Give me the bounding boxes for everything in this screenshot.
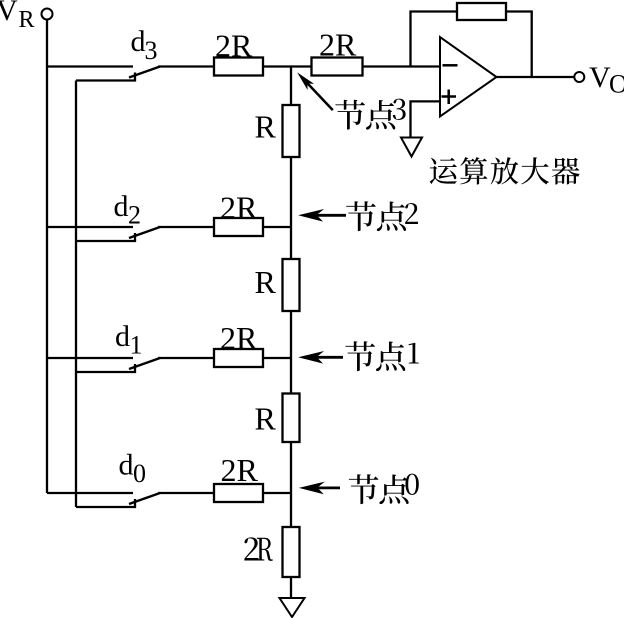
svg-text:2R: 2R	[221, 452, 259, 488]
ground opamp	[401, 138, 422, 157]
label node3	[335, 99, 405, 130]
wire d3 to resistor	[158, 65, 214, 67]
wire 2R to ground	[290, 577, 292, 599]
wire d3 lower contact elbow	[76, 73, 135, 81]
svg-text:d: d	[115, 320, 130, 353]
svg-text:2R: 2R	[220, 320, 258, 356]
switch d1 blade	[129, 358, 160, 369]
node 1 arrow	[298, 351, 343, 364]
resistor R3	[283, 394, 300, 443]
label VR	[0, 0, 35, 33]
wire d2 to resistor	[158, 226, 214, 228]
op-amp U1	[440, 37, 497, 117]
label node2	[346, 201, 418, 231]
wire VR rail	[46, 20, 48, 493]
svg-text:R: R	[255, 401, 277, 437]
wire d0 upper contact	[47, 492, 133, 494]
wire R1 to node2	[290, 157, 292, 227]
wire d0 to resistor	[158, 492, 214, 494]
op-amp plus pin mark	[442, 90, 457, 105]
svg-text:3: 3	[145, 36, 158, 65]
wire feedback up	[411, 12, 458, 67]
label d3	[131, 25, 158, 65]
wire R3 to node0	[290, 442, 292, 493]
wire d1 resistor to ladder	[263, 357, 292, 359]
wire switch bus	[75, 81, 77, 508]
label d1	[115, 320, 143, 360]
svg-text:2R: 2R	[319, 27, 357, 63]
wire opamp output	[497, 76, 575, 78]
svg-text:R: R	[255, 264, 277, 300]
switch d2 blade	[129, 227, 160, 238]
resistor 2R terminator	[283, 527, 300, 577]
label node0	[349, 474, 419, 505]
svg-text:d: d	[119, 449, 134, 482]
resistor R2	[283, 259, 300, 311]
resistor 2R opamp input	[312, 58, 363, 76]
label VO	[589, 61, 624, 99]
svg-text:d: d	[131, 25, 146, 58]
wire d3 resistor to ladder	[263, 65, 292, 67]
label d2	[114, 190, 142, 230]
wire d2 lower contact elbow	[76, 233, 135, 241]
wire opamp plus to ground	[411, 101, 441, 137]
svg-text:2R: 2R	[220, 190, 258, 226]
terminal VR	[42, 9, 53, 20]
op-amp minus pin mark	[443, 64, 458, 67]
wire node3 to 2R input	[291, 65, 312, 67]
svg-text:0: 0	[133, 459, 146, 488]
resistor 2R row d3	[214, 58, 263, 76]
switch d0 blade	[129, 493, 160, 504]
wire node0 to 2R term	[290, 493, 292, 527]
wire d1 to resistor	[158, 357, 214, 359]
resistor 2R row d1	[214, 349, 263, 367]
wire node2 to R2	[290, 227, 292, 259]
resistor 2R row d2	[214, 218, 263, 236]
node 0 arrow	[299, 482, 340, 495]
svg-text:2: 2	[128, 201, 141, 230]
terminal VO	[574, 72, 584, 82]
label node1	[345, 341, 418, 371]
svg-text:R: R	[19, 7, 35, 33]
svg-text:V: V	[589, 61, 611, 94]
resistor 2R row d0	[214, 484, 263, 502]
svg-text:1: 1	[130, 331, 143, 360]
wire d2 resistor to ladder	[263, 226, 292, 228]
svg-text:d: d	[114, 190, 129, 223]
node 2 arrow	[298, 209, 346, 222]
svg-text:O: O	[609, 70, 624, 99]
wire feedback down	[506, 12, 532, 78]
resistor R1	[283, 105, 300, 157]
label 2R terminator	[244, 537, 272, 560]
wire d0 resistor to ladder	[263, 492, 292, 494]
wire d1 lower contact elbow	[76, 364, 135, 372]
switch d3 blade	[129, 67, 160, 78]
wire d0 lower contact elbow	[76, 499, 135, 507]
wire d2 upper contact	[47, 226, 133, 228]
svg-text:V: V	[0, 0, 18, 27]
node 3 arrow	[297, 72, 333, 110]
wire node3 to R1	[290, 67, 292, 106]
wire 2R to opamp minus	[363, 65, 441, 67]
wire node1 to R3	[290, 358, 292, 394]
wire d3 upper contact	[47, 65, 133, 67]
svg-text:2R: 2R	[215, 28, 253, 64]
label d0	[119, 449, 147, 489]
ground bottom	[280, 598, 305, 617]
resistor feedback	[457, 3, 506, 20]
label opamp name	[430, 157, 580, 184]
wire d1 upper contact	[47, 357, 133, 359]
svg-text:R: R	[255, 109, 277, 145]
wire R2 to node1	[290, 311, 292, 358]
